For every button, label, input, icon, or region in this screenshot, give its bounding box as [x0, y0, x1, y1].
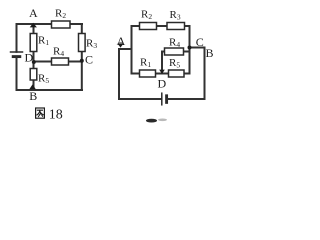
node C junction dot (right circuit) — [188, 46, 192, 50]
wire: top wire with R2 R3 — [132, 25, 190, 27]
resistor R2 (right circuit) — [140, 23, 157, 30]
svg-text:R1: R1 — [140, 57, 151, 70]
battery long plate (right circuit) — [161, 93, 163, 105]
wire: bottom wire — [17, 89, 83, 91]
wire: R5 to right vertical — [184, 73, 190, 75]
svg-text:R3: R3 — [86, 37, 97, 50]
wire: bottom wire right of battery — [168, 98, 205, 100]
wire: R1 to D to R5 — [156, 73, 169, 75]
node A marker (right circuit) — [117, 43, 123, 47]
svg-text:A: A — [29, 6, 38, 20]
svg-text:B: B — [29, 89, 37, 103]
wire: bottom wire left of battery — [119, 98, 161, 100]
svg-text:C: C — [196, 35, 204, 49]
svg-text:R5: R5 — [169, 57, 180, 70]
svg-text:A: A — [117, 34, 126, 48]
wire: middle wire D to C — [34, 61, 82, 63]
wire: middle row A riser to R1 — [132, 73, 140, 75]
wire: top wire from top-left corner to top-right corner — [17, 23, 83, 25]
svg-text:R2: R2 — [55, 8, 66, 21]
resistor R3 (left circuit, right vertical) — [79, 34, 86, 52]
svg-text:R2: R2 — [141, 9, 152, 22]
resistor R5 (right circuit) — [169, 70, 185, 77]
svg-text:C: C — [85, 52, 93, 66]
svg-text:R4: R4 — [53, 46, 64, 59]
wire: A stub — [119, 48, 132, 50]
svg-text:R5: R5 — [38, 73, 49, 86]
battery E long plate — [11, 51, 23, 53]
wire: left side upper segment (corner to battery) — [16, 24, 18, 52]
wire: right side vertical through R3 and C — [81, 24, 83, 90]
wire: R4 row left corner — [162, 51, 165, 53]
svg-text:R4: R4 — [169, 37, 180, 50]
node D junction dot (left circuit) — [32, 60, 36, 64]
resistor R5 (left circuit, D-B vertical) — [30, 69, 37, 81]
wire: inner right vertical — [189, 26, 191, 74]
resistor R4 (right circuit) — [165, 48, 184, 55]
battery E short plate — [13, 55, 20, 58]
resistor R2 (left circuit, top wire) — [52, 21, 71, 28]
wire: C to B stub — [190, 47, 205, 49]
wire: D riser up to R4 row — [161, 52, 163, 74]
battery short plate (right circuit) — [165, 96, 168, 103]
caption 图 glyph (drawn) — [36, 108, 45, 118]
wire: left side lower segment (battery to bottom-left corner) — [16, 57, 18, 90]
svg-text:D: D — [25, 50, 34, 64]
node A marker (left circuit) — [30, 23, 37, 28]
stray ink smudge bottom center — [146, 119, 157, 123]
svg-text:R3: R3 — [170, 9, 181, 22]
svg-text:18: 18 — [49, 107, 63, 122]
node C junction dot (left circuit) — [80, 59, 84, 63]
resistor R1 (right circuit) — [140, 70, 156, 77]
svg-text:B: B — [206, 46, 214, 60]
wire: outer left vertical (A to bottom) — [118, 49, 120, 99]
resistor R4 (left circuit, middle wire) — [52, 58, 69, 65]
wire: inner left vertical — [131, 26, 133, 74]
node B marker (left circuit) — [29, 84, 36, 89]
resistor R1 (left circuit, vertical A-D) — [30, 34, 37, 52]
resistor R3 (right circuit) — [167, 23, 185, 30]
svg-text:R1: R1 — [38, 35, 49, 48]
svg-text:D: D — [158, 77, 167, 91]
node D marker arrow (right circuit) — [159, 70, 165, 74]
wire: outer right vertical — [204, 48, 206, 100]
wire: A-D-B vertical branch — [33, 24, 35, 90]
wire: R4 to right vertical — [184, 51, 190, 53]
